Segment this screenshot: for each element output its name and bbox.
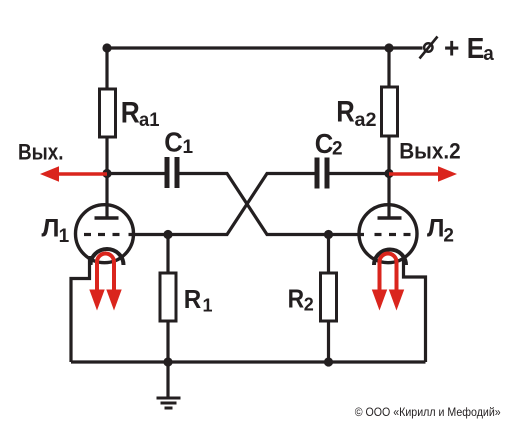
wire crossing to C2 [129, 174, 315, 235]
tube envelope Л1 [76, 205, 134, 263]
capacitor C2 [315, 158, 330, 189]
cathode Л2 [374, 249, 406, 265]
node anode Л1 / output 1 [102, 169, 111, 178]
svg-text:Л: Л [42, 214, 60, 242]
resistor Ra2 [382, 87, 398, 136]
svg-text:R: R [336, 95, 355, 128]
ground [157, 398, 181, 408]
svg-text:1: 1 [203, 296, 213, 316]
wire C1 to crossing [180, 174, 365, 235]
node grid Л1 / R1 top [163, 230, 172, 239]
wire ground stub [166, 362, 169, 397]
terminal +Ea [420, 37, 438, 59]
wire R1 to ground rail [166, 320, 169, 363]
svg-text:+ E: + E [444, 33, 484, 65]
svg-text:C: C [315, 128, 334, 159]
cathode emission arrows Л2 (red) [372, 254, 404, 311]
node grid Л2 / R2 top [324, 230, 333, 239]
cathode Л1 [91, 249, 124, 265]
svg-text:© ООО «Кирилл и Мефодий»: © ООО «Кирилл и Мефодий» [355, 405, 501, 419]
wire node to anode Л1 [105, 173, 108, 219]
anode plate Л2 [378, 216, 402, 220]
svg-text:Вых.: Вых. [18, 140, 64, 165]
wire node to anode Л2 [387, 173, 390, 219]
svg-text:2: 2 [304, 295, 314, 315]
tube envelope Л2 [359, 205, 417, 263]
svg-text:R: R [184, 286, 202, 314]
svg-text:2: 2 [443, 226, 454, 247]
wire anode lead upper Л2 [387, 48, 390, 88]
wire bottom rail [71, 360, 426, 363]
svg-text:R: R [288, 286, 305, 314]
svg-text:a: a [483, 43, 494, 65]
resistor R1 [160, 273, 176, 321]
output arrow Вых.2 (red, right) [389, 166, 457, 181]
svg-text:a2: a2 [355, 109, 377, 131]
svg-text:C: C [164, 127, 183, 158]
wire C2 to node2 [330, 172, 390, 175]
svg-text:1: 1 [59, 226, 70, 247]
node R1 bottom rail [163, 357, 172, 366]
wire anode lead upper Л1 [105, 48, 108, 90]
wire R2 grid lead down [327, 235, 330, 275]
grid Л2 (dashed) [375, 233, 411, 236]
anode plate Л1 [95, 216, 119, 220]
wire cathode Л2 to rail [404, 256, 426, 362]
svg-text:1: 1 [183, 137, 194, 158]
svg-text:a1: a1 [139, 109, 160, 131]
wire top rail [107, 46, 423, 49]
capacitor C1 [165, 157, 180, 188]
node anode Л2 / output 2 [384, 169, 393, 178]
resistor R2 [321, 273, 337, 321]
wire Ra1 to node [105, 136, 108, 176]
resistor Ra1 [100, 89, 116, 137]
wire node1 to C1 [107, 172, 165, 175]
output arrow Вых. (red, left) [40, 166, 107, 181]
node top rail left [102, 43, 111, 52]
node R2 bottom rail [324, 357, 333, 366]
svg-text:R: R [121, 96, 140, 129]
grid Л1 (dashed) [84, 233, 120, 236]
svg-text:2: 2 [332, 139, 343, 160]
cathode emission arrows Л1 (red) [89, 254, 121, 311]
svg-text:Вых.2: Вых.2 [399, 138, 461, 163]
wire R2 to ground rail [327, 320, 330, 363]
wire R1 grid lead down [166, 235, 169, 275]
wire cathode Л1 to rail [71, 256, 90, 362]
svg-text:Л: Л [427, 214, 445, 242]
wire Ra2 to node [387, 135, 390, 176]
node top rail right [384, 43, 393, 52]
